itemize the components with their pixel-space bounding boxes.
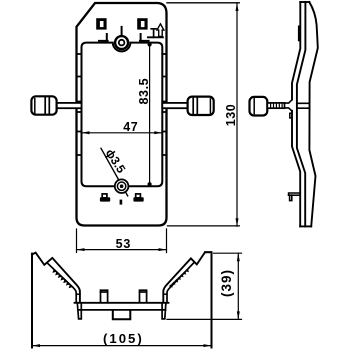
phi3.5 screw circle rings	[115, 179, 129, 193]
bottom view right wing inner band line	[167, 263, 194, 303]
(39) bottom extension line	[167, 318, 242, 320]
(39) top extension line	[214, 252, 242, 254]
53 dimension line	[77, 249, 167, 251]
side view screw knob	[250, 97, 268, 116]
left clamp shaft	[56, 103, 82, 108]
bottom view left wing inner band line	[48, 264, 76, 303]
side view screw funnel	[285, 100, 293, 111]
center index bar	[120, 200, 123, 205]
side view boss band	[297, 103, 310, 108]
bottom view left post	[101, 290, 108, 302]
right knob	[188, 97, 214, 115]
bottom view center tab	[113, 311, 131, 320]
phi3.5 leader line	[101, 148, 128, 196]
side view clamp pad	[298, 26, 301, 42]
130 dimension line	[236, 3, 238, 226]
side view inner face line	[297, 2, 306, 226]
bottom view left wing serration teeth	[52, 269, 72, 288]
top screw stem	[121, 27, 123, 37]
top screw outer ring	[115, 36, 128, 49]
svg-text:53: 53	[116, 237, 132, 251]
(39) dimension line	[237, 253, 239, 319]
right L-mark under square	[140, 34, 149, 42]
left padlock	[102, 194, 107, 198]
side view left face nub	[290, 113, 292, 118]
top-right square hole	[137, 18, 147, 29]
side view foot hook	[289, 193, 301, 201]
53 extension lines	[77, 229, 167, 253]
bottom view left wing rung	[76, 293, 80, 295]
side view bottom edge	[300, 225, 311, 227]
bottom view right wing rung	[163, 293, 167, 295]
up-arrow icon baseline	[148, 36, 163, 38]
side view left face line	[292, 2, 300, 100]
right padlock	[136, 194, 141, 198]
bottom view left outer edge	[31, 254, 33, 348]
svg-text:(105): (105)	[103, 331, 144, 346]
svg-text:130: 130	[224, 104, 238, 127]
up-arrow icon tee post	[151, 29, 156, 38]
bottom view right post	[140, 290, 147, 302]
(105) dimension line	[32, 345, 212, 347]
bottom view right wing serration teeth	[169, 269, 189, 288]
bottom view right outer edge	[211, 254, 213, 348]
svg-text:(39): (39)	[219, 269, 234, 297]
47 dimension line	[82, 132, 163, 134]
bottom view platform top line	[75, 302, 169, 304]
bottom view left wing peaks	[32, 253, 80, 303]
front view body outline	[77, 3, 167, 226]
side view outer profile line	[309, 2, 318, 226]
svg-text:83.5: 83.5	[137, 78, 151, 105]
svg-text:47: 47	[123, 120, 138, 134]
130 bottom extension line	[168, 225, 240, 227]
side view screw threads	[271, 104, 283, 108]
side view screw shaft	[267, 103, 284, 108]
bottom view left foot	[77, 303, 81, 319]
right clamp shaft	[162, 103, 187, 108]
top-left square hole	[96, 18, 106, 29]
top screw inner ring	[119, 40, 125, 46]
bottom view right wing peaks	[163, 252, 211, 302]
up-arrow icon hollow arrow	[157, 24, 164, 37]
130 top extension line	[167, 2, 239, 4]
side view top edge	[300, 1, 309, 3]
left L-mark under square	[99, 34, 108, 42]
83.5 dimension line with dots	[149, 45, 151, 185]
right side rungs	[162, 54, 166, 155]
front view inner window	[82, 43, 163, 187]
bottom view right foot	[162, 303, 166, 319]
left knob	[31, 96, 56, 114]
bottom view platform bottom line	[78, 309, 166, 311]
left side rungs	[77, 54, 82, 155]
